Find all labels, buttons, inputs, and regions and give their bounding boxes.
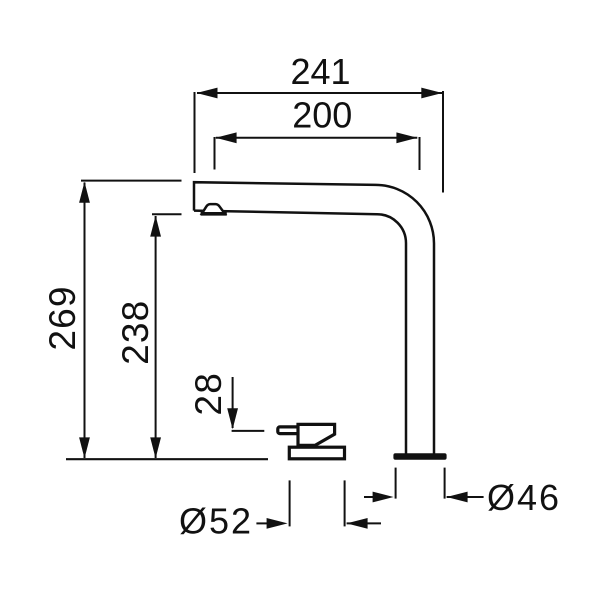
spout inner profile	[194, 211, 406, 454]
dim diameter46 right extension line	[444, 468, 446, 499]
ground baseline	[66, 458, 268, 460]
dim 238 bottom arrowhead	[150, 437, 161, 458]
dim diameter52 left extension line	[289, 480, 291, 526]
faucet base plate	[393, 453, 446, 460]
dim 238 top arrowhead	[150, 216, 161, 237]
dim 241 right extension line	[442, 91, 444, 193]
handle body	[298, 424, 335, 445]
dim diameter52 leader line	[256, 522, 270, 524]
dim 269 top arrowhead	[79, 182, 90, 203]
dim 200 left extension line	[214, 137, 216, 170]
dim 28 reference line	[232, 430, 265, 432]
dim 28 line	[232, 377, 234, 428]
dim 241 line	[197, 92, 442, 94]
dim diameter52 second leader line	[347, 522, 381, 524]
dim 241 left extension line	[194, 92, 196, 173]
handle lever	[278, 427, 300, 434]
dim 269 line	[84, 183, 86, 459]
dim diameter52 right extension line	[344, 480, 346, 526]
dim diameter46 left extension line	[395, 468, 397, 499]
dim 269 bottom arrowhead	[79, 437, 90, 458]
svg-text:Ø52: Ø52	[179, 500, 253, 541]
svg-text:Ø46: Ø46	[487, 477, 561, 518]
spout outer profile	[194, 182, 434, 454]
dim 200 left arrowhead	[216, 132, 237, 143]
aerator dome	[202, 204, 225, 214]
dim diameter52 left-pointing arrowhead	[347, 518, 368, 529]
dim 200 right arrowhead	[396, 132, 417, 143]
dim 269 top extension line	[81, 180, 182, 182]
aerator base line	[201, 212, 227, 216]
dim diameter46 right-pointing arrowhead	[373, 492, 394, 503]
svg-text:28: 28	[188, 372, 229, 416]
svg-text:269: 269	[42, 285, 83, 350]
svg-text:238: 238	[115, 300, 156, 365]
handle base	[289, 447, 344, 459]
dim diameter52 right-pointing arrowhead	[267, 518, 288, 529]
svg-text:241: 241	[290, 51, 350, 92]
dim 238 top extension line	[152, 213, 182, 215]
svg-text:200: 200	[292, 94, 352, 135]
dim diameter46 right leader line	[447, 496, 484, 498]
dim diameter46 left leader line	[364, 496, 375, 498]
dim 241 left arrowhead	[197, 88, 218, 99]
dim 238 line	[155, 216, 157, 458]
dim 200 right extension line	[419, 137, 421, 170]
dim 28 arrowhead	[227, 408, 238, 429]
dim 241 right arrowhead	[421, 88, 442, 99]
dim 200 line	[216, 137, 417, 139]
dim diameter46 left-pointing arrowhead	[447, 492, 468, 503]
